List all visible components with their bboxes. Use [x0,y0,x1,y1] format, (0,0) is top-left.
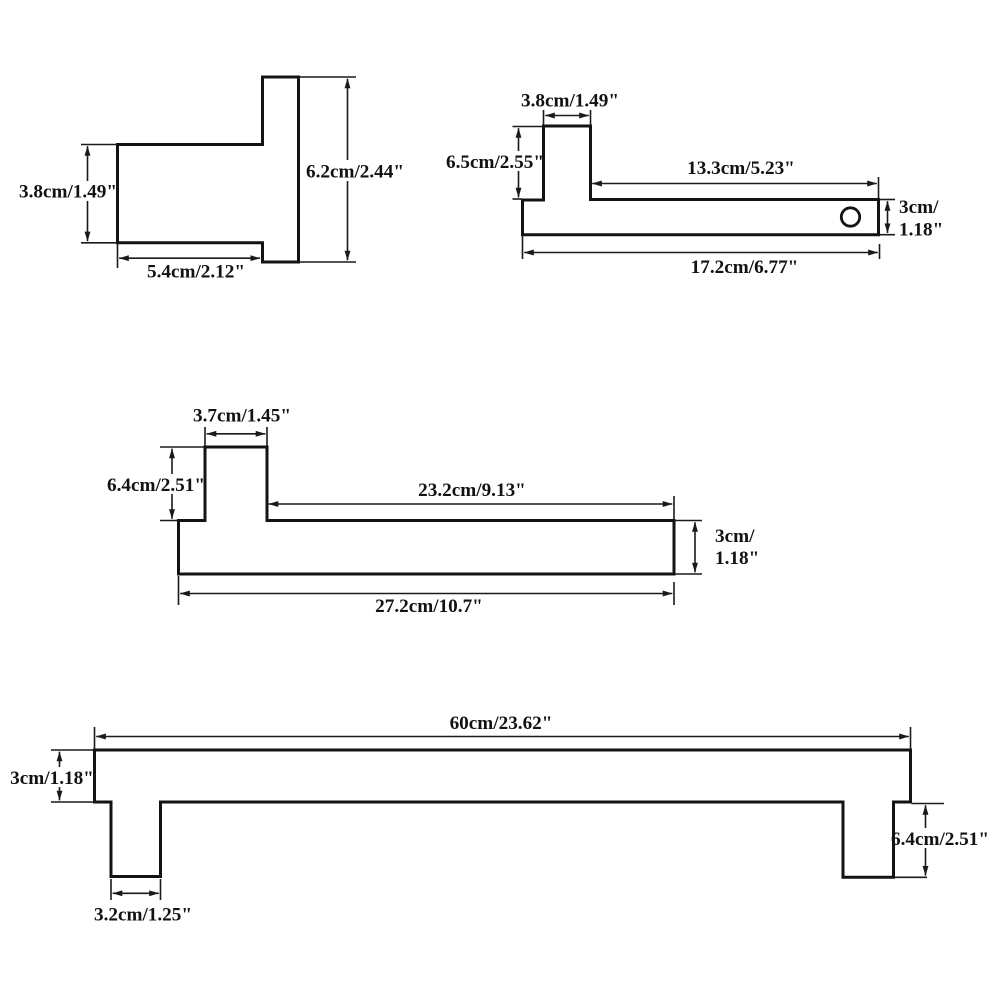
dim 6.2cm/2.44 right: label [304,160,404,181]
svg-text:6.5cm/2.55": 6.5cm/2.55" [446,152,544,173]
dim 6.4cm/2.51 right of part 4: arrow [925,805,927,875]
dim 3.8cm/1.49 top: extension ticks [544,110,591,125]
dim 5.4cm/2.12 bottom: arrow [119,257,260,259]
dim 3cm/1.18 right of part 2: extension ticks [880,200,896,235]
dim 6.4cm/2.51 left: extension ticks [160,447,204,521]
dim 3.7cm/1.45 top: arrow [207,433,266,435]
dim 6.4cm/2.51 left: arrow [171,449,173,519]
dim 23.2cm/9.13: arrow [269,503,673,505]
dim 27.2cm/10.7 bottom: arrow [180,593,672,595]
dim 6.5cm/2.55 left: label [446,151,542,171]
dim 5.4cm/2.12 bottom: extension tick [117,244,119,268]
svg-text:6.2cm/2.44": 6.2cm/2.44" [306,162,404,183]
dim 6.5cm/2.55 left: arrow [518,128,520,197]
dim 6.2cm/2.44 right: extension ticks [300,77,356,262]
dim 3cm/1.18 right of part 3: extension ticks [675,521,702,575]
dim 3cm/1.18 right of part 3: arrow [694,522,696,572]
dim 3.2cm/1.25 bottom leg: arrow [113,892,159,894]
svg-text:23.2cm/9.13": 23.2cm/9.13" [418,480,526,501]
part 3 outline (middle hitch bar) [179,447,675,574]
dim 6.4cm/2.51 right of part 4: label [896,828,990,848]
dim 3.8cm/1.49 left: arrow [87,146,89,241]
dim 13.3cm/5.23: extension tick [878,177,880,198]
dim 3.2cm/1.25 bottom leg: extension ticks [111,879,161,900]
dim 60cm/23.62 top: arrow [96,736,909,738]
svg-text:6.4cm/2.51": 6.4cm/2.51" [107,475,205,496]
svg-text:6.4cm/2.51": 6.4cm/2.51" [891,829,989,850]
svg-text:17.2cm/6.77": 17.2cm/6.77" [691,257,799,278]
svg-text:3cm/: 3cm/ [899,197,939,218]
dim 3.8cm/1.49 top: arrow [545,115,589,117]
svg-text:3cm/1.18": 3cm/1.18" [10,768,94,789]
dim 6.2cm/2.44 right: arrow [347,79,349,261]
dim 13.3cm/5.23: arrow [592,183,877,185]
part 2 outline (top-right hitch bar) [523,126,879,235]
dim 3.8cm/1.49 left: extension ticks [81,145,117,243]
svg-text:27.2cm/10.7": 27.2cm/10.7" [375,596,483,617]
dim 23.2cm/9.13: extension tick [673,496,675,519]
dim 6.4cm/2.51 left: label [107,474,203,494]
part 1 outline (top-left bracket) [118,77,299,262]
svg-text:3.7cm/1.45": 3.7cm/1.45" [193,406,291,427]
dim 3cm/1.18 left of part 4: arrow [59,752,61,801]
svg-text:3.2cm/1.25": 3.2cm/1.25" [94,905,192,926]
svg-text:13.3cm/5.23": 13.3cm/5.23" [687,158,795,179]
svg-text:3.8cm/1.49": 3.8cm/1.49" [521,91,619,112]
svg-text:3.8cm/1.49": 3.8cm/1.49" [19,182,117,203]
part 2 hole [841,208,859,226]
dim 17.2cm/6.77 bottom: arrow [524,252,878,254]
svg-text:5.4cm/2.12": 5.4cm/2.12" [147,262,245,283]
dim 6.4cm/2.51 right of part 4: extension ticks [895,804,945,878]
dim 3.7cm/1.45 top: extension ticks [205,427,267,446]
dim 3cm/1.18 right of part 2: arrow [887,201,889,233]
dim 3cm/1.18 left of part 4: extension ticks [51,750,94,802]
svg-text:60cm/23.62": 60cm/23.62" [450,713,553,734]
svg-text:1.18": 1.18" [899,220,943,241]
svg-text:1.18": 1.18" [715,548,759,569]
dim 27.2cm/10.7 bottom: extension ticks [179,576,675,605]
dim 60cm/23.62 top: extension ticks [95,727,911,749]
dim 3.8cm/1.49 left: label [20,181,115,201]
part 4 outline (long bottom bar with two legs) [95,750,911,877]
svg-text:3cm/: 3cm/ [715,526,755,547]
dim 6.5cm/2.55 left: extension ticks [513,127,544,200]
dim 3cm/1.18 left of part 4: label [13,767,92,787]
dim 17.2cm/6.77 bottom: extension ticks [523,236,880,259]
